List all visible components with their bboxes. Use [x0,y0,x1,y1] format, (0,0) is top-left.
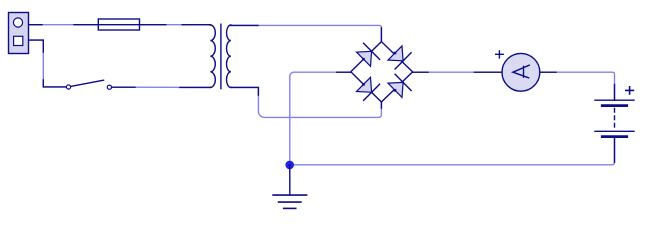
wire fuse to transformer primary top [140,24,211,26]
battery plus sign [626,87,634,94]
wire switch to transformer primary bottom [112,86,211,88]
plug pin stub bottom [29,40,66,87]
AC plug (wall outlet) body [9,13,29,54]
fuse F1 [98,19,139,30]
ground symbol [273,165,307,209]
transformer pin stubs [180,25,258,95]
switch S1 [66,80,111,89]
transformer T1 core [220,24,222,88]
ammeter plus sign [496,51,504,58]
wire ammeter to battery plus [540,72,615,100]
battery BT1 [595,100,634,136]
wire plug bottom pin to switch [29,40,66,87]
diode D3 (bottom-left, anode left vertex, cathode bottom) [357,77,380,100]
wire bridge left vertex to ground node [290,72,351,165]
switch right pin stub [112,86,135,88]
fuse pin stubs [74,24,166,26]
wire bridge right vertex to ammeter [413,71,502,73]
transformer T1 secondary winding [226,25,230,87]
diode D1 (top-left, anode left vertex, cathode top) [357,43,380,66]
battery pin stubs [614,85,616,163]
ammeter pin stubs [474,71,556,73]
diode D2 (top-right, anode top vertex, cathode right) [388,46,411,69]
plug pin stub top [29,24,42,26]
bridge rectifier diamond edges [351,42,413,102]
wire transformer secondary top to bridge top vertex [231,25,382,41]
bridge pin stubs [337,28,428,108]
wire battery minus to ground node [290,137,615,165]
transformer T1 primary winding [210,25,215,87]
junction node dot [285,161,294,170]
wire plug top pin to fuse [29,24,99,26]
wire transformer secondary bottom to bridge bottom vertex [231,87,382,117]
ammeter M1 [502,53,540,91]
diode D4 (bottom-right, anode bottom vertex, cathode right) [388,74,411,97]
